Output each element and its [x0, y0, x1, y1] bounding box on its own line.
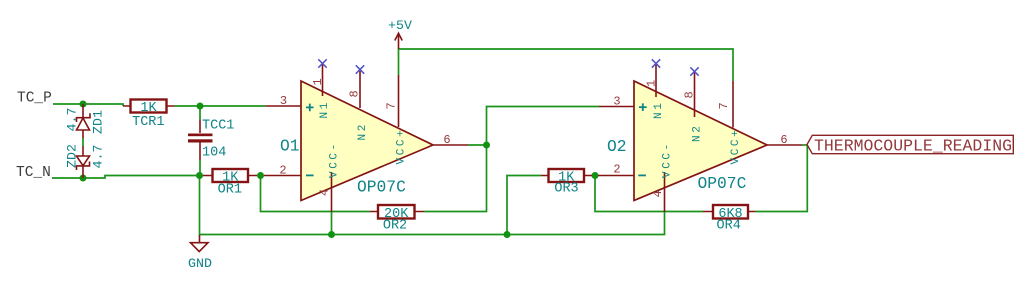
op-amp O2 no-connect X pin8 [690, 67, 698, 75]
op-amp O1 pin 3 [266, 105, 301, 107]
junction OR1 right / O1 pin2 [257, 172, 264, 179]
svg-text:4.7: 4.7 [64, 108, 79, 132]
resistor OR1 pins [203, 175, 257, 177]
wire capacitor TCC1 bottom link [199, 160, 201, 176]
svg-text:7: 7 [717, 102, 731, 109]
wire OR2 to O1 output riser to O2 pin3 [424, 107, 599, 212]
wire O1 pin4 drop to bus [331, 212, 333, 235]
wire O1 output pin6 [468, 144, 487, 146]
op-amp O1 pin 8 [359, 70, 361, 108]
svg-text:4: 4 [318, 189, 332, 196]
op-amp O1 pin 1 [322, 64, 324, 96]
junction bus at O1 pin4 [328, 231, 335, 238]
zener diode ZD1 [77, 113, 91, 130]
op-amp O1 pin 7 [398, 75, 400, 127]
op-amp O1 pin 6 output [433, 144, 468, 146]
op-amp O1 plus input mark [306, 104, 314, 112]
wire O2 feedback down to OR4 [595, 176, 703, 212]
op-amp O2 minus input mark [638, 174, 646, 176]
svg-text:TCR1: TCR1 [132, 115, 164, 130]
op-amp O1 pin 4 [331, 172, 333, 212]
wire OR4 to output riser [756, 145, 808, 212]
svg-text:GND: GND [188, 256, 212, 271]
wire capacitor TCC1 top link [199, 106, 201, 120]
resistor TCR1 body [131, 100, 167, 113]
power +5V symbol [395, 33, 402, 49]
svg-text:OP07C: OP07C [357, 177, 406, 196]
svg-text:1: 1 [644, 80, 658, 87]
op-amp O1 minus input mark [306, 174, 314, 176]
svg-text:2: 2 [279, 163, 286, 177]
svg-text:3: 3 [613, 95, 620, 109]
op-amp O2 pin 2 [598, 175, 634, 177]
op-amp O1 body [301, 81, 433, 201]
op-amp O2 pin 8 [694, 72, 696, 117]
svg-text:TCC1: TCC1 [202, 119, 234, 134]
svg-text:VCC-: VCC- [661, 141, 673, 178]
svg-text:VCC+: VCC+ [395, 128, 407, 165]
svg-text:6: 6 [780, 133, 787, 147]
wire O1 inverting feedback down to OR2 [261, 176, 370, 212]
svg-text:8: 8 [682, 91, 696, 98]
op-amp O2 pin 3 [599, 106, 634, 108]
svg-text:OP07C: OP07C [698, 174, 747, 193]
junction on TC_N at zeners [80, 175, 87, 182]
op-amp O2 pin 4 [664, 172, 666, 212]
hierarchical label THERMOCOUPLE_READING outline [807, 135, 1013, 153]
op-amp O2 pin 7 [732, 81, 734, 128]
svg-text:TC_N: TC_N [16, 165, 51, 181]
svg-text:N2: N2 [357, 122, 369, 140]
svg-text:OR1: OR1 [218, 183, 242, 198]
svg-text:4.7: 4.7 [91, 145, 106, 169]
svg-text:O1: O1 [280, 137, 300, 156]
svg-text:N2: N2 [691, 124, 703, 142]
svg-text:VCC+: VCC+ [730, 128, 742, 165]
svg-text:1: 1 [311, 78, 325, 85]
svg-text:104: 104 [202, 146, 226, 161]
resistor OR4 pins [703, 211, 756, 213]
op-amp O2 pin 1 [655, 64, 657, 97]
capacitor TCC1 pins [199, 120, 201, 161]
resistor OR3 body [549, 169, 585, 182]
wire ground bus [200, 176, 665, 235]
svg-text:OR3: OR3 [554, 182, 578, 197]
junction OR3 right / O2 pin2 [592, 172, 599, 179]
wire +5V rail [399, 49, 734, 81]
svg-text:VCC-: VCC- [328, 141, 340, 178]
junction TC_N row at TCC1/GND [196, 172, 203, 179]
svg-text:TC_P: TC_P [17, 91, 52, 107]
svg-text:2: 2 [613, 163, 620, 177]
resistor OR3 pins [541, 175, 592, 177]
svg-text:1K: 1K [140, 101, 157, 116]
op-amp O2 no-connect X pin1 [652, 59, 660, 67]
junction on TC_P at zeners [80, 101, 87, 108]
wire TCR1 to junction to O1 pin3 [175, 105, 266, 107]
resistor OR4 body [713, 205, 748, 219]
ground GND symbol [191, 235, 209, 252]
svg-text:+5V: +5V [388, 18, 412, 33]
svg-text:7: 7 [384, 102, 398, 109]
wire TC_P from label to resistor TCR1 [53, 104, 123, 106]
wire zener middle link [82, 138, 84, 147]
junction on TC_P row at TCC1 [197, 103, 204, 110]
wire O2 output pin6 to label [802, 144, 807, 146]
junction bus at OR3 riser [504, 231, 511, 238]
junction O1 output [483, 142, 490, 149]
svg-text:4: 4 [651, 190, 665, 197]
svg-text:N1: N1 [319, 100, 331, 118]
resistor OR1 body [213, 169, 249, 182]
svg-text:ZD1: ZD1 [91, 110, 106, 134]
wire TC_N from label to OR1 row [52, 176, 200, 179]
svg-text:ZD2: ZD2 [64, 144, 79, 168]
svg-text:OR2: OR2 [383, 219, 407, 234]
svg-text:N1: N1 [653, 101, 665, 119]
op-amp O2 body [634, 81, 767, 201]
svg-text:OR4: OR4 [717, 219, 741, 234]
capacitor TCC1 plates [188, 134, 213, 137]
op-amp O1 no-connect X pin8 [356, 65, 364, 73]
resistor OR2 pins [370, 211, 424, 213]
svg-text:O2: O2 [607, 137, 627, 156]
svg-text:THERMOCOUPLE_READING: THERMOCOUPLE_READING [814, 136, 1012, 155]
zener diode ZD1 pins [82, 104, 84, 178]
zener diode ZD2 [77, 156, 90, 170]
svg-text:8: 8 [347, 90, 361, 97]
svg-text:6: 6 [443, 133, 450, 147]
op-amp O2 plus input mark [639, 103, 647, 111]
op-amp O1 pin 2 [264, 175, 301, 177]
svg-text:3: 3 [280, 94, 287, 108]
op-amp O2 pin 6 output [767, 144, 802, 146]
op-amp O1 no-connect X pin1 [318, 59, 326, 67]
resistor TCR1 pins [123, 105, 175, 107]
resistor OR2 body [378, 205, 415, 219]
wire OR3 riser from bus [507, 176, 541, 235]
